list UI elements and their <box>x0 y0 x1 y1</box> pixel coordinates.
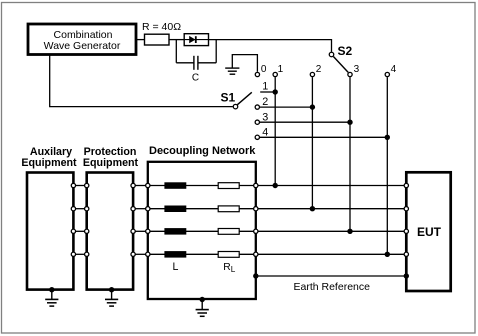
decoupling row 2: wire, inductor, resistor <box>151 206 256 213</box>
svg-text:Equipment: Equipment <box>21 157 77 169</box>
terminal protection right line 1 <box>131 183 135 187</box>
svg-text:S1: S1 <box>221 91 236 105</box>
ground symbol near contact 0 <box>225 68 239 74</box>
wire left branch down to capacitor <box>175 40 177 63</box>
terminal decoupling right line 1 <box>254 183 258 187</box>
svg-text:Earth Reference: Earth Reference <box>294 281 371 293</box>
wire aux to protection line 1 <box>73 185 86 187</box>
terminal protection left line 1 <box>85 183 89 187</box>
S1 contact 4 wire <box>260 136 387 138</box>
S1 contact 4 <box>255 135 259 139</box>
terminal decoupling left line 4 <box>146 252 150 256</box>
svg-text:R = 40Ω: R = 40Ω <box>142 21 181 33</box>
junction dot col4 row4 <box>385 252 390 257</box>
S1 contact 2 <box>255 105 259 109</box>
switch S1 pivot <box>233 104 238 109</box>
terminal aux right line 2 <box>71 207 75 211</box>
ground wire at S2 contact 0 <box>232 55 257 72</box>
wire right branch down to capacitor <box>215 40 217 63</box>
svg-text:4: 4 <box>391 64 397 75</box>
svg-text:2: 2 <box>262 96 268 108</box>
junction dot col2 row2 <box>310 206 315 211</box>
svg-text:S2: S2 <box>338 44 353 58</box>
svg-text:L: L <box>173 261 179 273</box>
svg-text:Equipment: Equipment <box>83 157 139 169</box>
wire aux to protection line 4 <box>73 253 86 255</box>
S2 contact 1 <box>273 72 277 76</box>
wire clamp box to S2 corner <box>209 40 332 52</box>
svg-text:3: 3 <box>262 111 268 123</box>
wire resistor to clamp box <box>169 39 184 41</box>
wire aux to protection line 2 <box>73 208 86 210</box>
terminal protection left line 4 <box>85 252 89 256</box>
terminal decoupling right line 4 <box>254 252 258 256</box>
terminal protection right line 2 <box>131 207 135 211</box>
svg-text:4: 4 <box>262 126 268 138</box>
Decoupling Network box <box>148 145 256 299</box>
S2 contact 3 <box>348 72 352 76</box>
terminal protection right line 3 <box>131 229 135 233</box>
junction dot row2 col2 <box>310 104 315 109</box>
terminal decoupling left line 3 <box>146 229 150 233</box>
S1 contact 2 wire <box>260 106 313 108</box>
junction dot col3 row3 <box>347 229 352 234</box>
junction dot row1 col1 <box>273 89 278 94</box>
decoupling row 4: wire, inductor, resistor <box>151 251 256 258</box>
junction dot earth at EUT <box>404 273 409 278</box>
clamp box with diode <box>184 34 208 46</box>
decoupling row 3: wire, inductor, resistor <box>151 228 256 235</box>
S2 contact 4 <box>385 72 389 76</box>
ground at auxilary box <box>45 287 58 306</box>
wire protection to decoupling line 2 <box>133 208 148 210</box>
column wire 2 <box>311 77 313 209</box>
Auxilary Equipment box <box>21 146 77 290</box>
junction dot earth at decoupling <box>253 273 258 278</box>
terminal decoupling left line 2 <box>146 207 150 211</box>
capacitor C <box>176 56 216 84</box>
switch S2 pivot <box>329 52 334 57</box>
junction dot row4 col4 <box>385 135 390 140</box>
terminal decoupling right line 2 <box>254 207 258 211</box>
wire protection to decoupling line 3 <box>133 230 148 232</box>
terminal protection left line 3 <box>85 229 89 233</box>
terminal decoupling left line 1 <box>146 183 150 187</box>
terminal EUT left line 1 <box>404 183 408 187</box>
wire decoupling to EUT line 4 <box>259 253 407 255</box>
wire from generator bottom to S1 pivot <box>50 55 233 107</box>
wire decoupling to EUT line 1 <box>259 185 407 187</box>
terminal aux right line 1 <box>71 183 75 187</box>
svg-text:Wave Generator: Wave Generator <box>44 40 121 52</box>
junction dot col1 row1 <box>273 183 278 188</box>
generator box U1 Combination Wave Generator <box>28 24 136 55</box>
resistor R <box>145 34 170 45</box>
S2 contact 2 <box>310 72 314 76</box>
svg-text:3: 3 <box>354 64 360 75</box>
decoupling row 1: wire, inductor, resistor <box>151 182 256 189</box>
ground at protection box <box>105 287 118 306</box>
svg-text:1: 1 <box>278 64 284 75</box>
svg-text:1: 1 <box>262 80 268 92</box>
column wire 1 <box>274 77 276 185</box>
earth reference wire <box>256 275 406 277</box>
terminal EUT left line 3 <box>404 229 408 233</box>
terminal protection left line 2 <box>85 207 89 211</box>
Protection Equipment box <box>83 146 139 290</box>
switch S2 arm to contact 3 <box>333 57 348 73</box>
wire decoupling to EUT line 2 <box>259 208 407 210</box>
EUT box <box>406 172 450 291</box>
column wire 3 <box>349 77 351 231</box>
column wire 4 <box>386 77 388 254</box>
terminal EUT left line 2 <box>404 207 408 211</box>
wire protection to decoupling line 1 <box>133 185 148 187</box>
wire decoupling to EUT line 3 <box>259 230 407 232</box>
terminal decoupling right line 3 <box>254 229 258 233</box>
ground at decoupling box <box>196 297 209 317</box>
svg-text:Decoupling Network: Decoupling Network <box>149 145 256 157</box>
svg-text:C: C <box>192 73 199 84</box>
S1 contact 3 wire <box>260 121 350 123</box>
junction dot row3 col3 <box>347 120 352 125</box>
wire aux to protection line 3 <box>73 230 86 232</box>
wire generator output to resistor <box>136 39 145 41</box>
svg-text:0: 0 <box>261 64 267 75</box>
terminal protection right line 4 <box>131 252 135 256</box>
terminal aux right line 3 <box>71 229 75 233</box>
S2 contact 0 <box>255 72 259 76</box>
switch S1 arm toward contact 1 <box>237 92 251 104</box>
terminal aux right line 4 <box>71 252 75 256</box>
wire protection to decoupling line 4 <box>133 253 148 255</box>
S1 contact 3 <box>255 120 259 124</box>
terminal EUT left line 4 <box>404 252 408 256</box>
S1 contact 1 wire <box>260 91 275 93</box>
svg-text:EUT: EUT <box>417 225 442 239</box>
svg-text:2: 2 <box>316 64 322 75</box>
